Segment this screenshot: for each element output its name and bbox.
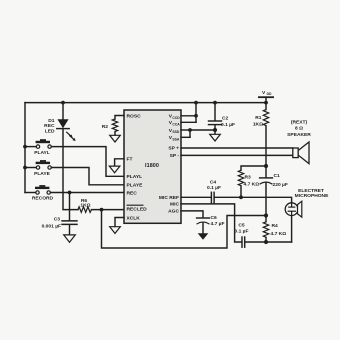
LED D1 bbox=[57, 103, 76, 141]
svg-text:PLAYE: PLAYE bbox=[127, 183, 144, 189]
svg-text:RECLED: RECLED bbox=[127, 207, 148, 213]
wire MIC pin down bbox=[181, 204, 242, 242]
svg-text:D1: D1 bbox=[48, 118, 55, 124]
svg-text:4.7 KΩ: 4.7 KΩ bbox=[244, 181, 260, 187]
node C2 top rail bbox=[213, 101, 217, 105]
wire XCLK to ground bbox=[115, 218, 124, 227]
svg-text:0.1 µF: 0.1 µF bbox=[207, 185, 221, 191]
svg-text:RECORD: RECORD bbox=[32, 195, 54, 201]
ground below R2 bbox=[110, 135, 121, 142]
wire VSSD bbox=[181, 129, 190, 131]
node R6 / bottom leg bbox=[100, 208, 104, 212]
svg-text:C1: C1 bbox=[274, 173, 281, 179]
capacitor C3 bbox=[62, 193, 77, 235]
node AGC rail / C1 / R4 bbox=[264, 213, 268, 217]
pushbutton PLAYE bbox=[25, 160, 124, 185]
supply VDD bbox=[258, 90, 274, 103]
wire VCC join to top rail bbox=[195, 103, 197, 123]
svg-text:4.7 KΩ: 4.7 KΩ bbox=[271, 231, 287, 237]
wire R6 to RECLED pin bbox=[92, 209, 125, 211]
svg-text:1KΩ: 1KΩ bbox=[80, 203, 90, 209]
svg-text:SPEAKER: SPEAKER bbox=[287, 132, 311, 138]
wire VCCA bbox=[181, 121, 196, 123]
wire top rail bbox=[25, 102, 266, 104]
resistor R2 bbox=[112, 119, 117, 132]
node top rail / LED bbox=[61, 101, 65, 105]
svg-text:FT: FT bbox=[127, 157, 133, 163]
svg-text:MICROPHONE: MICROPHONE bbox=[295, 193, 329, 199]
capacitor C4 bbox=[211, 192, 214, 202]
wire ROSC to R2 bbox=[115, 116, 124, 120]
svg-text:PLAYE: PLAYE bbox=[34, 171, 51, 177]
node R4 bottom bbox=[264, 240, 268, 244]
capacitor C6 bbox=[197, 218, 210, 233]
resistor R4 bbox=[265, 216, 267, 222]
svg-text:I1800: I1800 bbox=[145, 163, 159, 169]
svg-text:R1: R1 bbox=[255, 115, 262, 121]
node R1 / R3 / C1 bbox=[264, 164, 268, 168]
wire VCCD bbox=[181, 115, 196, 117]
svg-text:REC: REC bbox=[44, 123, 55, 129]
wire C4 to microphone top bbox=[215, 197, 292, 203]
svg-text:SP +: SP + bbox=[168, 146, 179, 152]
capacitor C1 220uF bbox=[260, 166, 273, 216]
svg-text:LED: LED bbox=[45, 128, 55, 134]
resistor R1 bbox=[265, 103, 267, 110]
node VCC bbox=[194, 114, 198, 118]
wire R1 down to node bbox=[265, 126, 267, 166]
wire C5 to mic bottom bbox=[245, 241, 291, 243]
svg-text:C6: C6 bbox=[211, 215, 218, 221]
node VDD / top rail end bbox=[264, 101, 268, 105]
node C2 bottom bbox=[213, 128, 217, 132]
capacitor C2 bbox=[209, 103, 222, 134]
svg-text:XCLK: XCLK bbox=[127, 215, 141, 221]
wire left rail bbox=[24, 103, 26, 193]
svg-text:CCD: CCD bbox=[172, 116, 180, 120]
wire R3 to MIC REF wire bbox=[240, 186, 242, 198]
svg-text:0.1 µF: 0.1 µF bbox=[235, 229, 249, 235]
svg-text:MIC: MIC bbox=[170, 202, 179, 208]
electret microphone bbox=[285, 201, 302, 217]
wire FT to ground bbox=[115, 159, 124, 166]
IC U1 I1800 bbox=[124, 110, 181, 223]
svg-text:1KΩ: 1KΩ bbox=[253, 122, 263, 128]
svg-text:220 µF: 220 µF bbox=[273, 182, 288, 188]
wire VSS join bbox=[190, 130, 215, 137]
ground below XCLK bbox=[110, 227, 121, 234]
ground below C6 bbox=[198, 233, 209, 240]
wire SP+ to speaker bbox=[181, 147, 293, 149]
wire R2 to ground bbox=[114, 132, 116, 135]
node C4 / R3 bbox=[239, 195, 243, 199]
svg-text:4.7 µF: 4.7 µF bbox=[211, 221, 225, 227]
resistor R6 bbox=[78, 207, 91, 213]
wire node to R3 bbox=[241, 166, 266, 170]
speaker (REXT) 8 ohm bbox=[293, 142, 309, 164]
wire SP- to speaker bbox=[181, 154, 293, 156]
svg-text:(REXT): (REXT) bbox=[291, 119, 308, 125]
node VSS bbox=[188, 128, 192, 132]
svg-text:0.001 µF: 0.001 µF bbox=[42, 224, 61, 230]
ground below C2 bbox=[210, 134, 221, 141]
svg-text:PLAYL: PLAYL bbox=[127, 174, 143, 180]
svg-text:0.1 µF: 0.1 µF bbox=[221, 122, 235, 128]
svg-text:8 Ω: 8 Ω bbox=[295, 126, 303, 132]
svg-text:SSA: SSA bbox=[172, 137, 180, 141]
svg-text:C3: C3 bbox=[54, 217, 61, 223]
svg-text:R2: R2 bbox=[102, 124, 109, 130]
svg-text:ROSC: ROSC bbox=[127, 113, 142, 119]
node RECORD / C3 bbox=[68, 191, 72, 195]
svg-text:AGC: AGC bbox=[168, 209, 179, 215]
svg-text:SSD: SSD bbox=[172, 130, 180, 134]
node left rail PLAYL bbox=[23, 145, 27, 149]
wire VSSA bbox=[181, 136, 190, 138]
svg-text:REC: REC bbox=[127, 190, 138, 196]
svg-text:C5: C5 bbox=[238, 223, 245, 229]
wire mic bottom bbox=[291, 216, 293, 242]
svg-text:CCA: CCA bbox=[172, 122, 180, 126]
pushbutton RECORD bbox=[25, 185, 124, 194]
svg-text:C4: C4 bbox=[210, 179, 217, 185]
capacitor C5 bbox=[242, 237, 245, 247]
svg-text:DD: DD bbox=[267, 92, 272, 96]
svg-text:R3: R3 bbox=[245, 174, 252, 180]
svg-text:R4: R4 bbox=[272, 223, 279, 229]
svg-text:PLAYL: PLAYL bbox=[34, 150, 50, 156]
wire LED cathode down to R6 corner bbox=[63, 129, 78, 210]
pushbutton PLAYL bbox=[25, 139, 124, 176]
wire MIC REF with C4 bbox=[181, 196, 211, 198]
wire bottom rail from R6 node to AGC node bbox=[102, 210, 267, 248]
ground below C3 bbox=[64, 235, 76, 242]
node left rail PLAYE bbox=[23, 166, 27, 170]
svg-text:MIC REF: MIC REF bbox=[159, 195, 179, 201]
svg-text:C2: C2 bbox=[222, 116, 229, 122]
ground below FT bbox=[109, 166, 120, 173]
svg-text:SP -: SP - bbox=[170, 153, 180, 159]
wire AGC to C6 bbox=[181, 211, 203, 218]
resistor R3 bbox=[238, 170, 243, 185]
